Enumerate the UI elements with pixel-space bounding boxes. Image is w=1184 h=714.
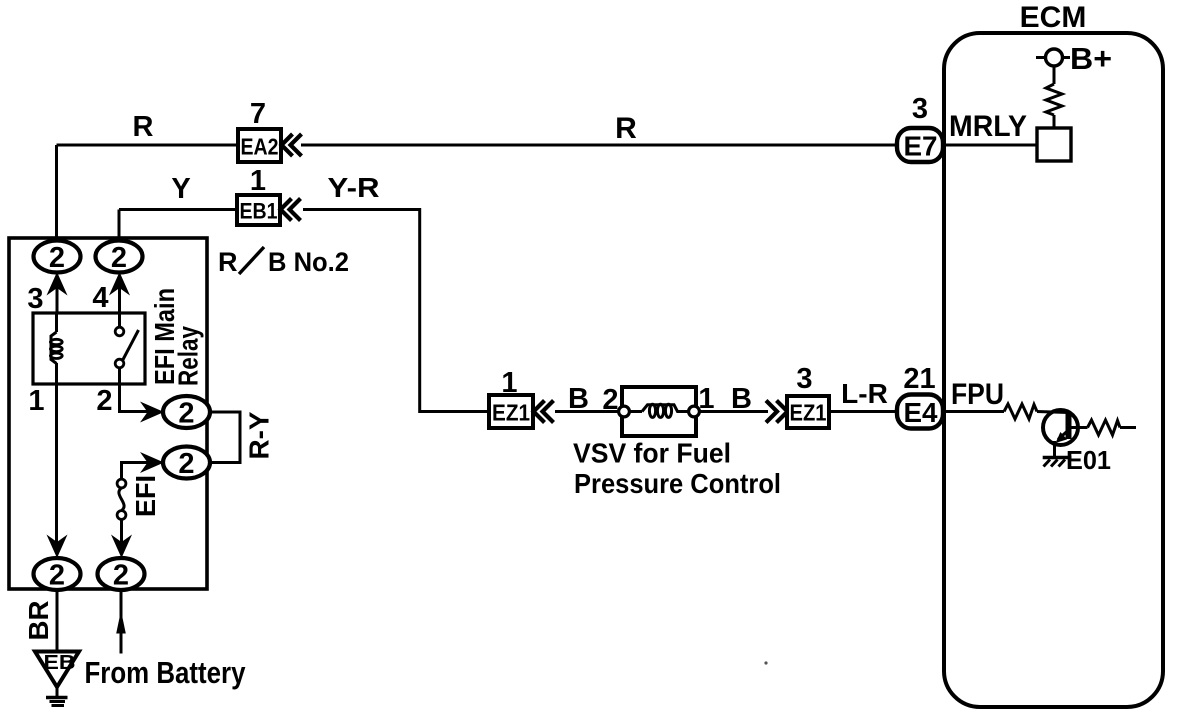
svg-text:Y-R: Y-R	[328, 172, 380, 203]
svg-text:E4: E4	[904, 397, 938, 428]
VSV terminal 1	[689, 406, 700, 417]
arrow up (from battery)	[116, 611, 126, 634]
wire B+ to resistor	[1053, 66, 1056, 84]
arrow down into bottom oval 1	[47, 535, 68, 559]
arrow right into mid oval 2	[140, 452, 164, 473]
svg-text:2: 2	[111, 242, 127, 274]
arrow down into bottom oval 2	[111, 535, 132, 559]
resistor (FPU series)	[1004, 404, 1037, 419]
wire BR to ground	[56, 589, 59, 652]
label EFI Main Relay	[149, 288, 204, 386]
svg-text:B No.2: B No.2	[268, 247, 349, 277]
relay coil	[50, 313, 62, 384]
wire E7 to driver box	[941, 144, 1037, 147]
connector EZ1 (right)	[787, 396, 829, 428]
svg-text:EB: EB	[44, 652, 76, 674]
svg-text:B: B	[731, 383, 752, 415]
wire from battery	[120, 589, 123, 654]
wire L-R	[829, 410, 897, 413]
svg-text:L-R: L-R	[841, 378, 888, 409]
connector oval 2 (bottom right)	[98, 558, 145, 592]
svg-text:1: 1	[28, 385, 44, 417]
wire B (left)	[555, 410, 620, 413]
connector oval 2 (top left)	[34, 241, 81, 275]
wire B (right)	[700, 410, 769, 413]
wire E4 to resistor	[941, 410, 1004, 413]
svg-text:2: 2	[178, 398, 194, 430]
wire pin1 down	[55, 384, 58, 545]
connector oval 2 (mid 1)	[163, 396, 210, 430]
chevrons at EA2	[282, 134, 293, 156]
connector EA2	[238, 129, 281, 162]
arrow up into oval (pin4)	[109, 272, 130, 296]
svg-text:ECM: ECM	[1020, 1, 1087, 34]
svg-text:R-Y: R-Y	[244, 411, 275, 459]
ground EB triangle	[35, 652, 79, 688]
relay driver box (MRLY internal square)	[1037, 128, 1071, 161]
EFI fuse	[117, 479, 126, 519]
R-Y loop wire	[209, 412, 240, 463]
emitter wire	[1053, 441, 1056, 457]
svg-text:E7: E7	[904, 131, 938, 162]
wire R (EA2 to E7)	[301, 144, 897, 147]
arrow up into oval (pin3)	[47, 272, 68, 296]
svg-text:2: 2	[96, 385, 112, 417]
connector EZ1 (left)	[489, 395, 533, 428]
VSV coil	[629, 404, 689, 417]
R/B No.2 box	[9, 238, 207, 589]
chevrons at EB1	[281, 199, 292, 221]
svg-text:EZ1: EZ1	[790, 400, 827, 426]
svg-text:3: 3	[796, 363, 812, 395]
svg-text:2: 2	[113, 560, 129, 592]
ground E01	[1043, 458, 1072, 467]
connector oval 2 (top right)	[96, 241, 143, 275]
scan speck	[764, 661, 767, 664]
wire pin2 to oval	[120, 384, 151, 412]
svg-text:R: R	[615, 112, 637, 145]
svg-text:7: 7	[250, 98, 266, 130]
arrow right into mid oval 1	[140, 402, 164, 423]
svg-text:4: 4	[92, 282, 108, 314]
svg-text:2: 2	[602, 384, 618, 416]
svg-text:2: 2	[178, 448, 194, 480]
svg-text:2: 2	[49, 242, 65, 274]
svg-text:Pressure Control: Pressure Control	[574, 468, 781, 499]
EFI main relay box	[33, 313, 145, 384]
B+ terminal circle	[1036, 49, 1070, 66]
svg-text:3: 3	[912, 93, 928, 125]
svg-text:B+: B+	[1070, 41, 1112, 76]
label R/B No.2	[218, 247, 349, 277]
svg-text:FPU: FPU	[951, 378, 1004, 411]
VSV terminal 2	[619, 406, 630, 417]
wire after resistor	[1120, 426, 1136, 429]
svg-text:E01: E01	[1066, 445, 1111, 475]
wire Y	[119, 208, 237, 211]
svg-text:EFI: EFI	[130, 475, 161, 517]
svg-text:MRLY: MRLY	[949, 110, 1027, 143]
svg-text:EZ1: EZ1	[492, 400, 530, 426]
ground bars	[46, 687, 68, 706]
svg-text:From Battery: From Battery	[85, 655, 247, 690]
svg-text:R: R	[218, 247, 238, 277]
wire fuse to mid oval 2	[122, 463, 151, 480]
svg-text:EA2: EA2	[241, 134, 279, 160]
connector oval 2 (mid 2)	[163, 447, 210, 481]
svg-text:EB1: EB1	[240, 199, 278, 224]
connector E7	[897, 128, 943, 162]
resistor (B+ pull-up)	[1046, 84, 1062, 115]
svg-text:3: 3	[27, 283, 43, 315]
svg-text:2: 2	[49, 560, 65, 592]
wire resistor to relay driver box	[1053, 115, 1056, 128]
wire fuse down	[120, 519, 123, 545]
relay switch	[115, 313, 138, 384]
wire pin4 to relay	[118, 276, 121, 313]
svg-text:Relay: Relay	[173, 326, 204, 386]
connector EB1	[237, 195, 280, 225]
ECM box	[944, 33, 1163, 707]
connector oval 2 (bottom left)	[34, 558, 81, 592]
svg-text:VSV for Fuel: VSV for Fuel	[573, 438, 731, 469]
svg-text:B: B	[568, 383, 589, 415]
wire vertical into R/B pin 4	[118, 210, 121, 244]
wire Y-R	[303, 210, 489, 412]
svg-text:BR: BR	[23, 601, 54, 641]
wire R (left, to R/B)	[57, 144, 239, 147]
wire pin3 to relay	[56, 276, 59, 313]
transistor Q (driver)	[1037, 410, 1078, 445]
svg-text:21: 21	[903, 363, 935, 395]
wire vertical into R/B pin 3	[55, 145, 58, 243]
svg-text:R: R	[133, 111, 154, 143]
resistor (collector)	[1088, 420, 1121, 435]
svg-text:1: 1	[250, 165, 266, 197]
chevrons at EZ1 right	[766, 401, 777, 423]
VSV body	[622, 387, 696, 436]
svg-text:Y: Y	[171, 173, 190, 205]
connector E4	[897, 395, 943, 429]
chevrons at EZ1 left	[534, 401, 545, 423]
collector wire	[1069, 426, 1088, 429]
